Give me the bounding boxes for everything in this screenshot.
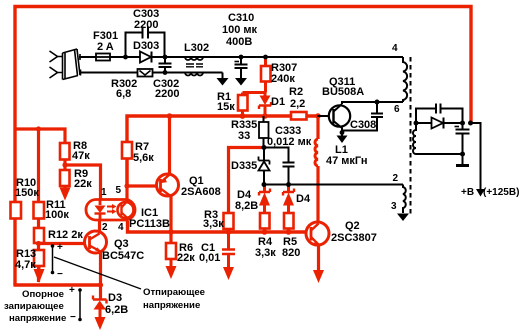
wire Q2 emitter down (317, 244, 320, 271)
zener D4 first (263, 185, 266, 193)
wire L1 to Q2 collector (316, 166, 319, 223)
wire mains top (79, 56, 96, 58)
wire Q1 emitter column (168, 116, 171, 174)
zener D3 (93, 296, 107, 304)
svg-text:2: 2 (102, 222, 108, 233)
wire secondary bottom (416, 153, 463, 155)
svg-text:5,6к: 5,6к (133, 152, 154, 164)
wire L1 branch down from base node (316, 116, 319, 139)
resistor R307 (264, 57, 267, 66)
choke L302 (185, 57, 203, 60)
wire Q1 collector to R6 (169, 196, 172, 244)
capacitor C308 (376, 102, 378, 113)
wire Q311 emitter (341, 128, 343, 133)
svg-text:0,012 мк: 0,012 мк (267, 136, 312, 148)
svg-text:2SA608: 2SA608 (181, 186, 221, 198)
wire +B output (471, 123, 481, 190)
transformer secondary (413, 123, 416, 154)
svg-text:R2: R2 (289, 86, 303, 98)
svg-text:4,7к: 4,7к (15, 259, 36, 271)
svg-text:PC113B: PC113B (129, 218, 170, 230)
svg-text:BC547C: BC547C (102, 250, 144, 262)
svg-text:D3: D3 (108, 292, 122, 304)
svg-text:3,3к: 3,3к (255, 247, 276, 259)
svg-text:D4: D4 (296, 193, 311, 205)
ground red arrow below C1 (223, 267, 234, 280)
svg-text:+: + (57, 242, 63, 253)
transistor Q1 2SA608 (157, 174, 179, 196)
wire Q311 base stub (318, 115, 335, 117)
wire Q3 base from R12/R13 node (39, 242, 87, 245)
diode D303 (140, 52, 151, 63)
svg-text:(+125В): (+125В) (483, 187, 519, 198)
capacitor C303 loop (126, 33, 165, 58)
svg-text:6,8: 6,8 (116, 88, 131, 100)
voltage marker across R13 (52, 246, 54, 273)
svg-text:2,2: 2,2 (290, 98, 305, 110)
filter capacitor output (462, 123, 464, 129)
svg-text:C308: C308 (350, 119, 376, 131)
svg-text:−: − (57, 269, 63, 280)
svg-text:6,2В: 6,2В (105, 304, 128, 316)
snubber capacitor parallel (416, 109, 463, 124)
svg-text:4: 4 (118, 222, 124, 233)
resistor R10 (11, 202, 22, 219)
wire red bottom-left rail (13, 283, 101, 286)
resistor R9 (60, 170, 70, 186)
ground chassis arrow after L302 (222, 73, 224, 79)
node R1 and D1 joints on bus (240, 113, 246, 119)
ground red arrow below R13 (34, 269, 45, 283)
svg-text:8,2В: 8,2В (235, 200, 258, 212)
capacitor C333 (283, 163, 295, 167)
svg-text:напряжение: напряжение (143, 300, 200, 311)
svg-text:400В: 400В (226, 36, 252, 48)
ground arrow Q311 emitter (337, 136, 348, 144)
optocoupler IC1 PC113B body (86, 200, 135, 221)
svg-text:22к: 22к (74, 178, 92, 190)
wire secondary top to rectifier (416, 122, 432, 124)
ground secondary (462, 154, 464, 165)
wire red main bus y116 (127, 116, 318, 186)
svg-text:C310: C310 (228, 12, 254, 24)
svg-text:100 мк: 100 мк (222, 24, 258, 36)
resistor R12 (34, 228, 44, 243)
svg-text:3,3к: 3,3к (203, 218, 224, 230)
resistor R7 (122, 142, 132, 159)
svg-text:напряжение: напряжение (9, 313, 66, 324)
transformer core (410, 57, 412, 215)
svg-text:150к: 150к (15, 187, 39, 199)
resistor R1 (241, 93, 244, 96)
capacitor C310 (239, 55, 244, 60)
svg-text:240к: 240к (271, 73, 295, 85)
resistor R11 (34, 202, 45, 219)
svg-text:22к: 22к (177, 252, 195, 264)
resistor R3 (224, 213, 234, 229)
svg-text:запирающее: запирающее (4, 301, 64, 312)
ground red arrow below Q2 (313, 270, 324, 283)
svg-text:Q3: Q3 (114, 238, 129, 250)
wire Q3 emitter to rail (99, 251, 102, 299)
svg-text:−: − (70, 312, 76, 323)
fuse F301 (96, 54, 110, 61)
node R307 top (263, 55, 268, 60)
zener D4 second (287, 185, 290, 193)
svg-text:D303: D303 (133, 40, 159, 52)
IC1 LED (99, 200, 102, 205)
node R11 top junction (36, 126, 41, 131)
wire red feedback loop: left border, top border, right drop (15, 7, 471, 286)
ground red arrow below D3 (95, 317, 106, 330)
svg-text:2: 2 (393, 173, 399, 184)
node D335 top (262, 145, 267, 150)
svg-text:4: 4 (392, 43, 398, 54)
resistor R4 (260, 213, 270, 229)
zener D1 (264, 93, 267, 96)
ground arrow transformer pin3 (397, 214, 409, 222)
svg-text:L302: L302 (184, 42, 209, 54)
wire R11-R12-R13 column (37, 129, 40, 282)
resistor R6 (166, 243, 176, 259)
node rectifier output (460, 121, 465, 126)
inductor L1 47uH (315, 139, 318, 166)
svg-text:R12 2к: R12 2к (48, 229, 83, 241)
voltage marker reference (79, 290, 81, 320)
svg-text:33: 33 (238, 130, 250, 142)
resistor R335 (263, 116, 265, 122)
wire Q311 collector to transformer pin 6 (342, 102, 403, 104)
mains plug (50, 49, 81, 80)
svg-text:+: + (69, 285, 75, 296)
svg-text:3: 3 (391, 201, 397, 212)
svg-text:47 мкГн: 47 мкГн (326, 155, 368, 167)
transistor Q2 2SC3807 (306, 222, 329, 245)
svg-text:Опорное: Опорное (22, 289, 64, 300)
capacitor C1 (227, 232, 230, 249)
wire red R3 branch from D335 node (229, 148, 265, 214)
svg-text:0,01: 0,01 (199, 252, 220, 264)
svg-text:6: 6 (394, 104, 400, 115)
ground red arrow below R6 (166, 266, 177, 279)
svg-text:1: 1 (101, 187, 107, 198)
zener D335 (263, 148, 265, 161)
svg-text:15к: 15к (217, 101, 235, 113)
wire red bottom bus y232 (128, 221, 312, 232)
svg-text:820: 820 (282, 247, 300, 259)
svg-text:+B: +B (461, 187, 474, 198)
wire bottom net y184.5 to transformer pin2 (264, 184, 403, 186)
transformer primary 4-6 (403, 57, 407, 102)
svg-text:2200: 2200 (155, 88, 179, 100)
svg-text:2 A: 2 A (97, 41, 114, 53)
transistor Q311 BU508A (329, 105, 350, 126)
svg-text:5: 5 (116, 185, 122, 196)
svg-text:100к: 100к (45, 209, 69, 221)
fusible resistor R302 (138, 69, 153, 77)
wire red upper-left branch y129 (15, 129, 65, 143)
svg-text:2SC3807: 2SC3807 (331, 232, 377, 244)
svg-text:Q2: Q2 (345, 220, 360, 232)
rectifier diode (432, 118, 444, 129)
resistor R13 (34, 250, 44, 266)
svg-text:47к: 47к (72, 150, 90, 162)
transistor Q3 BC547C (98, 221, 101, 233)
capacitor C302 (164, 57, 166, 63)
svg-text:2200: 2200 (134, 19, 158, 31)
svg-text:BU508A: BU508A (322, 86, 364, 98)
wire mains bottom (80, 72, 223, 74)
resistor R2 (291, 112, 307, 120)
svg-text:D1: D1 (271, 96, 285, 108)
resistor R8 (60, 143, 70, 160)
node R8 R9 junction (62, 162, 67, 167)
wire node to C333 (264, 148, 289, 163)
transformer primary 2-3 (403, 185, 406, 214)
wire R1 top to R307 bottom (243, 91, 266, 94)
callout line to R13 marker (54, 257, 141, 289)
wire R8 R9 column (63, 143, 66, 188)
IC1 phototransistor (118, 202, 134, 218)
resistor R5 (284, 213, 294, 229)
svg-text:Отпирающее: Отпирающее (143, 287, 205, 298)
ground red arrow below R9 (60, 188, 71, 201)
svg-text:D335: D335 (231, 160, 257, 172)
wire R8/R9 node to IC1 pin1 (65, 165, 101, 200)
wire R7 to IC1 pin5 and Q1 base (125, 158, 128, 200)
node dots top wire (123, 55, 128, 60)
IC1 emission arrows (107, 207, 113, 212)
